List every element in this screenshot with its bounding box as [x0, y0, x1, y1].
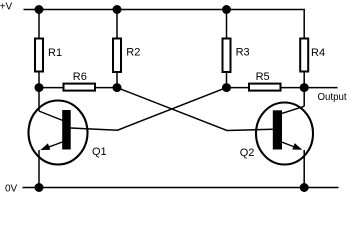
wire bottom 0V rail — [23, 187, 339, 189]
wire R1 bottom lead to node A — [38, 72, 40, 88]
svg-text:Q2: Q2 — [240, 147, 255, 159]
svg-text:Q1: Q1 — [92, 146, 107, 158]
svg-text:R6: R6 — [73, 71, 87, 83]
svg-text:R2: R2 — [126, 47, 140, 59]
resistor R3 — [223, 39, 250, 73]
svg-text:Output: Output — [318, 92, 347, 103]
node dot top rail R1 — [35, 5, 44, 14]
svg-text:R3: R3 — [236, 46, 250, 58]
node dot 0V rail Q2 emitter — [300, 183, 309, 192]
wire R2 bottom lead — [116, 72, 118, 88]
wire node B to Q2 collector — [303, 88, 305, 107]
svg-text:R4: R4 — [311, 47, 325, 59]
node dot R2 bottom / R6 right — [113, 83, 122, 92]
wire Q2 emitter to 0V rail — [303, 150, 305, 188]
resistor R4 — [300, 39, 325, 72]
svg-text:R1: R1 — [48, 47, 62, 59]
node dot B (R4/R5/output) — [300, 83, 309, 92]
wire cross-coupling R3 node to Q1 base — [71, 88, 227, 131]
transistor Q2 — [240, 103, 313, 165]
node dot 0V rail Q1 emitter — [35, 183, 44, 192]
resistor R2 — [113, 39, 140, 73]
resistor R5 — [249, 71, 281, 91]
wire top supply rail — [24, 10, 305, 39]
svg-text:+V: +V — [0, 2, 13, 13]
transistor Q1 — [29, 101, 107, 165]
wire R5 right lead — [281, 87, 305, 89]
resistor R6 — [64, 71, 96, 91]
node dot R3 bottom / R5 left — [222, 83, 231, 92]
wire node A to Q1 collector — [38, 88, 40, 111]
wire R2 top lead — [116, 10, 118, 39]
node dot A (R1/R6/Q1 collector) — [35, 83, 44, 92]
node dot top rail R2 — [113, 5, 122, 14]
node dot top rail R3 — [222, 5, 231, 14]
resistor R1 — [35, 39, 62, 72]
wire R3 bottom lead — [226, 72, 228, 88]
wire R6 left lead — [39, 87, 64, 89]
wire Q1 emitter to 0V rail — [38, 150, 40, 188]
wire R4 bottom lead — [303, 72, 305, 88]
wire output lead — [304, 87, 337, 89]
svg-text:0V: 0V — [5, 184, 18, 195]
svg-text:R5: R5 — [256, 71, 270, 83]
wire R3 top lead — [226, 10, 228, 39]
wire R5 left lead — [227, 87, 250, 89]
wire R6 right lead — [95, 87, 117, 89]
wire cross-coupling R2 node to Q2 base — [117, 88, 273, 131]
wire R1 top lead — [38, 10, 40, 39]
